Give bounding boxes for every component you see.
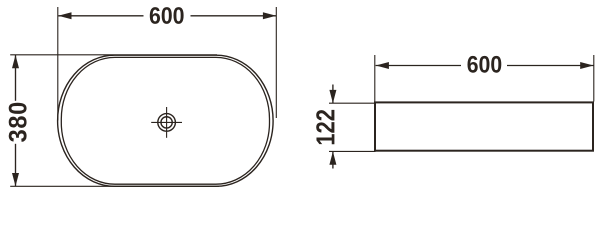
dimension line 600 top right segment bbox=[191, 15, 277, 17]
drain crosshair horizontal line bbox=[151, 121, 182, 123]
drain crosshair vertical line bbox=[166, 107, 168, 138]
arrowhead bottom of 380 dimension bbox=[12, 173, 19, 186]
basin outer rim (top view stadium outline) bbox=[58, 55, 274, 186]
arrowhead left of top 600 dimension bbox=[58, 12, 71, 19]
drain inner circle bbox=[161, 117, 172, 128]
dimension line 600 side right segment bbox=[507, 65, 594, 67]
side view basin body rectangle bbox=[375, 102, 593, 150]
label 600 (side view width) bbox=[468, 56, 502, 73]
dimension line 600 side left segment bbox=[376, 65, 461, 67]
extension line top for 122 dimension bbox=[329, 102, 376, 104]
extension line left for top 600 dimension bbox=[57, 7, 59, 121]
arrowhead left of side 600 dimension bbox=[376, 62, 389, 69]
extension line top for 380 dimension bbox=[10, 54, 217, 56]
extension line bottom for 122 dimension bbox=[329, 150, 376, 152]
label 122 (side view height) bbox=[316, 110, 334, 144]
extension line right for top 600 dimension bbox=[275, 7, 277, 118]
arrow tail below bottom arrow of 122 dimension bbox=[332, 152, 334, 169]
arrowhead top of 380 dimension bbox=[12, 55, 19, 68]
dimension line 380 upper segment bbox=[15, 55, 17, 101]
extension line right for side 600 dimension bbox=[593, 55, 595, 102]
extension line bottom for 380 dimension bbox=[10, 185, 219, 187]
arrowhead right of top 600 dimension bbox=[263, 12, 276, 19]
arrow tail above top arrow of 122 dimension bbox=[332, 85, 334, 104]
extension line left for side 600 dimension bbox=[374, 55, 376, 102]
arrowhead top of 122 dimension (pointing down) bbox=[329, 90, 336, 103]
basin inner rim (top view inner outline) bbox=[61, 57, 269, 184]
dimension line 380 lower segment bbox=[15, 144, 17, 186]
arrowhead right of side 600 dimension bbox=[580, 62, 593, 69]
dimension line 600 top left segment bbox=[58, 15, 143, 17]
label 600 (top view width) bbox=[150, 7, 184, 24]
arrowhead bottom of 122 dimension (pointing up) bbox=[329, 152, 336, 165]
label 380 (top view depth) bbox=[9, 103, 27, 142]
drain outer circle bbox=[158, 114, 176, 132]
